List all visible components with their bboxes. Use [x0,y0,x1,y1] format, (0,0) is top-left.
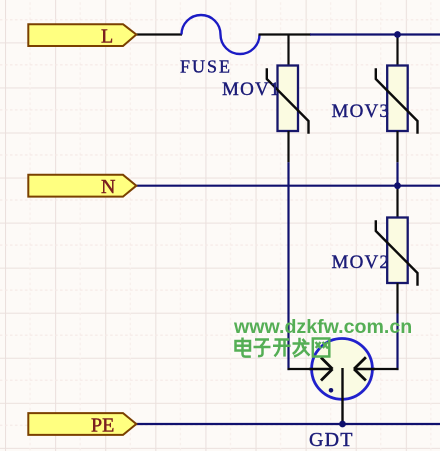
svg-text:L: L [101,25,113,47]
GDT center electrode to PE [341,368,343,424]
port flag PE [28,413,136,436]
watermark chinese 电子开发网 [236,338,330,357]
svg-text:MOV2: MOV2 [332,252,391,273]
wire PE [135,423,440,425]
char fa [293,338,310,357]
GDT gas indicator dot [329,388,334,393]
pin MOV3 bottom [396,131,398,162]
pin MOV2 bottom [396,283,398,314]
wire L top navy [310,33,440,35]
GDT envelope circle [312,339,373,400]
node junction L-MOV3 [394,31,401,38]
port flag N [28,175,136,198]
varistor MOV2 [376,218,418,286]
node junction N-MOV [394,182,401,189]
char dian [236,338,251,357]
varistor MOV3 [376,66,418,134]
GDT left arrowhead [321,358,333,370]
char wang [313,339,330,357]
wire MOV2 to GDT net navy [396,314,398,371]
pin MOV1 bottom [287,131,289,162]
GDT left electrode line [309,368,333,370]
varistor MOV1 [267,66,309,134]
svg-text:MOV3: MOV3 [332,101,391,122]
pin MOV1 top [287,34,289,67]
GDT right electrode line [354,368,375,370]
wire MOV1 to GDT [288,368,333,370]
port flag L [28,24,136,47]
char kai [273,340,291,357]
svg-text:GDT: GDT [309,429,354,451]
node junction PE-GDT [339,421,346,428]
fuse FUSE [182,15,260,54]
wire MOV2 to GDT [354,368,399,370]
char zi [254,340,271,357]
svg-text:N: N [101,176,115,198]
gas discharge tube GDT [309,339,375,425]
wire N [135,185,440,187]
pin MOV2 top [396,187,398,218]
wire L flag to fuse [135,33,182,35]
svg-text:FUSE: FUSE [180,57,232,77]
pin MOV3 top [396,35,398,67]
wire N net vertical navy [396,162,398,186]
svg-text:www.dzkfw.com.cn: www.dzkfw.com.cn [233,316,412,338]
svg-text:MOV1: MOV1 [222,79,281,100]
GDT right arrowhead [354,357,366,369]
wire fuse to node [259,33,312,35]
wire MOV1 to GDT net navy [287,162,289,370]
svg-text:PE: PE [91,414,114,436]
